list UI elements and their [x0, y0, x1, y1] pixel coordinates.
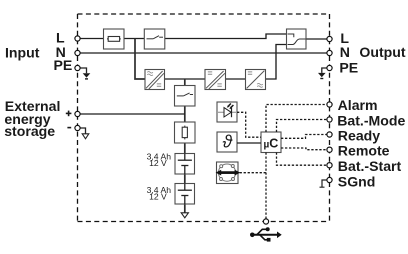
svg-text:storage: storage — [4, 123, 55, 139]
label battery 1 capacity — [147, 152, 172, 169]
PE input ground hook — [80, 68, 87, 73]
battery 2 — [175, 184, 195, 205]
label Bat.-Start — [338, 158, 402, 174]
label minus sign — [67, 127, 71, 129]
dashed signal microcontroller to Alarm — [266, 105, 327, 133]
wire N row — [80, 52, 327, 54]
label N output — [340, 44, 350, 60]
label battery 2 capacity — [147, 185, 172, 202]
dashed signal microcontroller to Bat.-Mode — [277, 120, 328, 133]
input switch block — [144, 29, 165, 49]
battery switch block — [175, 86, 196, 107]
label Ready — [338, 127, 380, 143]
PE output ground hook — [322, 68, 327, 73]
svg-text:Remote: Remote — [338, 143, 390, 159]
terminal N input — [75, 50, 80, 55]
svg-text:SGnd: SGnd — [338, 173, 376, 189]
terminal SGnd with signal ground hook — [320, 177, 333, 187]
dashed signal microcontroller to Remote — [281, 148, 327, 150]
PE input earth arrow — [83, 73, 91, 79]
minus terminal open arrow — [82, 134, 89, 139]
label L output — [340, 30, 349, 46]
terminal N output — [327, 50, 332, 55]
DC/AC inverter block — [246, 70, 266, 90]
AC/DC converter block — [145, 70, 165, 90]
wire battery 2 to chassis arrow — [184, 204, 186, 213]
wire inverter to transfer switch — [266, 45, 287, 80]
wire plus terminal to battery column — [80, 113, 185, 115]
USB interface block — [216, 162, 241, 184]
svg-text:Input: Input — [5, 45, 40, 61]
terminal Alarm — [327, 102, 332, 107]
svg-text:Alarm: Alarm — [338, 97, 378, 113]
terminal L input — [75, 36, 80, 41]
svg-text:Bat.-Start: Bat.-Start — [338, 158, 402, 174]
terminal Remote — [327, 147, 332, 152]
svg-text:Ready: Ready — [338, 127, 380, 143]
wire battery fuse to battery 1 — [184, 143, 186, 154]
wire battery 1 to battery 2 — [184, 174, 186, 184]
label PE output — [339, 59, 358, 75]
label External energy storage — [4, 98, 60, 139]
dashed signal microcontroller to Ready — [281, 135, 327, 139]
label Remote — [338, 143, 390, 159]
wire transfer switch to L output — [306, 38, 327, 40]
minus terminal ground hook — [80, 128, 86, 134]
dashed signal microcontroller to Bat.-Start — [277, 153, 328, 166]
battery 1 — [175, 154, 195, 175]
terminal Bat.-Mode — [327, 117, 332, 122]
label L input — [56, 30, 65, 46]
terminal Bat.-Start — [327, 163, 332, 168]
device outline dashed border — [78, 14, 330, 222]
label PE input — [54, 57, 73, 73]
battery fuse block — [175, 122, 196, 143]
label plus sign — [66, 111, 72, 117]
wire L input row — [80, 34, 287, 39]
USB trident symbol — [250, 227, 282, 241]
terminal PE input — [75, 65, 80, 70]
dashed signal microcontroller to USB connector — [265, 153, 267, 220]
dashed signal USB interface to USB node — [240, 172, 266, 174]
svg-text:PE: PE — [54, 57, 73, 73]
label SGnd — [338, 173, 376, 189]
wire AC tap to converter — [135, 39, 145, 80]
DC/DC converter block — [205, 70, 226, 90]
terminal minus — [75, 125, 80, 130]
wire temperature sensor to microcontroller — [237, 142, 261, 144]
svg-text:µC: µC — [264, 136, 279, 150]
svg-text:N: N — [340, 44, 350, 60]
svg-text:Bat.-Mode: Bat.-Mode — [337, 112, 405, 128]
svg-text:PE: PE — [339, 59, 358, 75]
microcontroller block — [261, 132, 281, 153]
label Output — [359, 44, 405, 60]
terminal USB node on border — [263, 219, 268, 224]
terminal L output — [327, 36, 332, 41]
wire converter2 to converter3 — [226, 78, 246, 80]
optocoupler alarm output block — [217, 102, 237, 122]
label N input — [56, 44, 66, 60]
svg-text:ϑ: ϑ — [222, 132, 233, 152]
terminal plus — [75, 111, 80, 116]
svg-text:12 V: 12 V — [149, 158, 167, 168]
transfer switch block — [287, 29, 307, 49]
wire tap to battery switch — [184, 79, 186, 86]
svg-text:Output: Output — [359, 44, 405, 60]
input fuse block — [104, 29, 125, 49]
wire battery switch to battery fuse — [184, 106, 186, 122]
terminal PE output — [327, 65, 332, 70]
temperature sensor block — [217, 132, 237, 152]
svg-text:12 V: 12 V — [149, 192, 167, 202]
label Alarm — [338, 97, 378, 113]
label Bat.-Mode — [337, 112, 405, 128]
label Input — [5, 45, 40, 61]
dashed signal optocoupler to microcontroller — [237, 112, 261, 137]
battery chain open arrow — [181, 213, 188, 218]
terminal Ready — [327, 132, 332, 137]
wire converter1 to converter2 — [165, 78, 206, 80]
PE output earth arrow — [318, 73, 326, 79]
